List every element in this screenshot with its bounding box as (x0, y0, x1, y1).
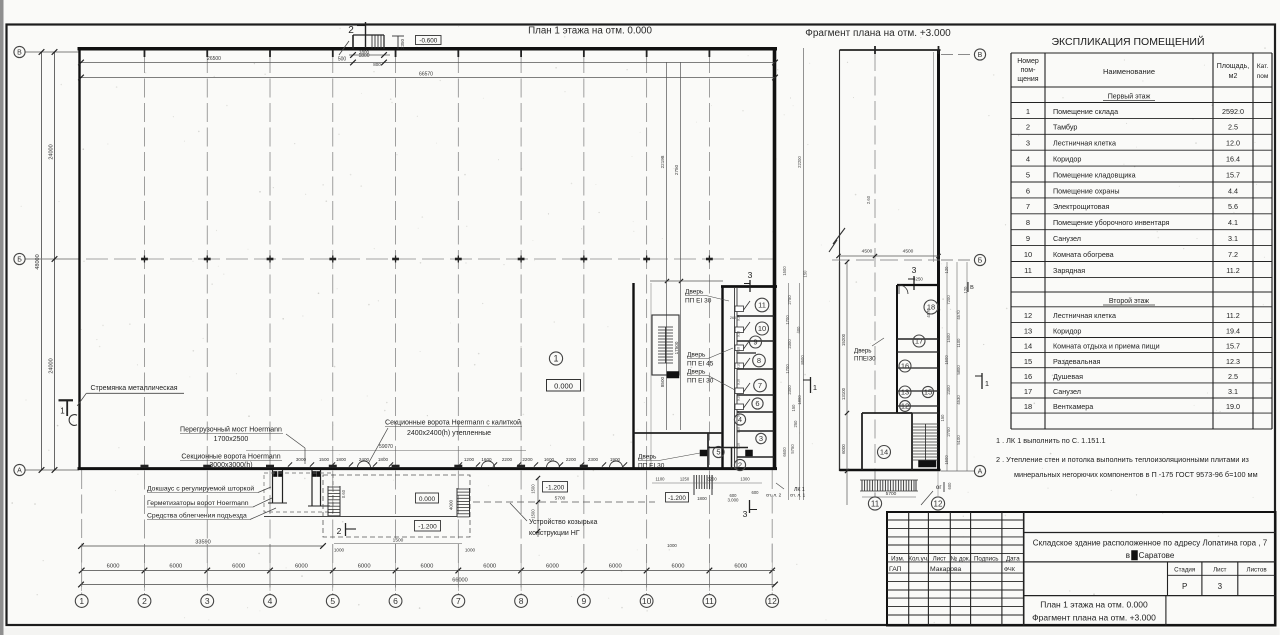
table header Номер (1017, 58, 1039, 83)
svg-text:7: 7 (758, 381, 762, 390)
titleblock line under stadia (1024, 595, 1276, 597)
dim line 66000 row (78, 578, 778, 588)
svg-text:9: 9 (1026, 234, 1030, 243)
svg-text:6000: 6000 (420, 564, 433, 570)
pit dashed outline (323, 475, 470, 537)
fragment bottom wall (840, 469, 941, 472)
svg-text:10: 10 (1024, 250, 1032, 259)
svg-text:4.4: 4.4 (1228, 186, 1238, 195)
fragment axis circle Б (974, 254, 985, 265)
svg-text:11: 11 (705, 596, 714, 606)
svg-text:9: 9 (753, 338, 757, 347)
svg-text:12.3: 12.3 (1226, 357, 1240, 366)
svg-text:Зарядная: Зарядная (1053, 266, 1085, 275)
svg-text:48000: 48000 (35, 254, 41, 269)
svg-text:5.6: 5.6 (1228, 202, 1238, 211)
svg-text:В: В (17, 50, 22, 57)
svg-text:120: 120 (963, 286, 968, 294)
svg-text:19.0: 19.0 (1226, 402, 1240, 411)
svg-text:13: 13 (901, 388, 909, 397)
svg-text:6000: 6000 (483, 564, 496, 570)
svg-text:2350: 2350 (400, 38, 405, 49)
svg-text:9: 9 (581, 596, 586, 606)
svg-text:150: 150 (791, 404, 796, 412)
room number bubble 11 (755, 298, 769, 312)
svg-text:11: 11 (871, 499, 880, 508)
svg-text:2300: 2300 (946, 385, 951, 395)
label dokshaus (147, 485, 271, 493)
fragment inner west wall (896, 285, 898, 413)
svg-text:-0.600: -0.600 (419, 38, 437, 45)
fragment door arc room18 (899, 285, 908, 294)
svg-text:910: 910 (737, 363, 741, 369)
svg-text:26500: 26500 (207, 56, 221, 62)
dim line 33590 (78, 540, 326, 549)
svg-text:3: 3 (205, 596, 210, 606)
rooms bottom dims row (655, 477, 750, 482)
svg-text:16: 16 (1024, 372, 1032, 381)
titleblock GAP row (889, 566, 1016, 573)
svg-text:В: В (978, 52, 983, 59)
column bubble 10 (640, 595, 653, 608)
fragment dim 5700 (862, 491, 916, 497)
fragment west line upper (839, 50, 841, 262)
svg-text:Лестничная клетка: Лестничная клетка (1053, 311, 1116, 320)
fragment flag В small (968, 282, 974, 292)
room divider y369 (737, 368, 774, 370)
svg-text:800: 800 (373, 62, 381, 67)
svg-text:2592.0: 2592.0 (1222, 107, 1244, 116)
fragment dims top (866, 195, 931, 317)
svg-text:Секционные ворота Hoermann: Секционные ворота Hoermann (181, 454, 280, 461)
svg-text:ГАП: ГАП (889, 566, 902, 573)
dock 2 shelter (308, 470, 330, 506)
fragment left dim line (845, 260, 849, 505)
svg-text:500: 500 (338, 57, 347, 63)
fragment divider y368 (897, 367, 939, 369)
label sredstva (147, 508, 276, 520)
room number bubble 5 (713, 446, 724, 457)
level box 0.000 warehouse (547, 380, 581, 392)
column bubble 12 (766, 595, 779, 608)
svg-text:2.5: 2.5 (1228, 372, 1238, 381)
top stair box (353, 35, 384, 49)
svg-text:12: 12 (767, 596, 777, 606)
svg-text:250: 250 (793, 420, 798, 428)
rooms top dim line (650, 279, 723, 283)
svg-text:Лист: Лист (1213, 567, 1227, 574)
svg-text:Раздевальная: Раздевальная (1053, 357, 1100, 366)
svg-text:пом: пом (1257, 73, 1269, 80)
rooms partition wall (632, 283, 634, 468)
svg-text:1200: 1200 (464, 457, 475, 462)
svg-text:910: 910 (737, 347, 741, 353)
svg-text:6: 6 (1026, 186, 1030, 195)
svg-text:5100: 5100 (956, 435, 961, 445)
svg-text:15: 15 (1024, 357, 1032, 366)
grid line column 2 (143, 54, 145, 594)
svg-text:1000: 1000 (465, 548, 476, 553)
svg-text:2400: 2400 (359, 457, 370, 462)
room number 1 bubble (549, 352, 562, 365)
grid line column 12 below building (771, 470, 773, 594)
svg-text:8: 8 (757, 356, 761, 365)
svg-text:Площадь,: Площадь, (1217, 63, 1249, 70)
table header Площадь (1217, 63, 1249, 80)
canopy level box -1.200 (543, 482, 568, 493)
room number bubble 2 (734, 459, 745, 470)
fragment door label (854, 338, 884, 363)
axis line А (25, 469, 79, 471)
svg-text:Душевая: Душевая (1053, 372, 1083, 381)
bottom wall opening dims (296, 457, 621, 462)
top dim line 2 (81, 77, 775, 79)
svg-text:15.7: 15.7 (1226, 342, 1240, 351)
titleblock line under top box (1024, 532, 1276, 534)
column ticks top wall (144, 50, 709, 57)
corridor west wall (721, 286, 723, 470)
svg-text:8500: 8500 (800, 355, 805, 365)
label bridge line1 (180, 426, 283, 434)
svg-text:4250: 4250 (913, 277, 923, 282)
fragment inner north wall (897, 284, 939, 286)
grid line column 9 (583, 54, 585, 594)
column bubble 6 (389, 595, 402, 608)
svg-text:1000: 1000 (334, 548, 345, 553)
column bubble 3 (201, 595, 214, 608)
fragment divider y339 (897, 338, 939, 340)
grid line column 5 (332, 54, 334, 594)
Б axis dashed line (30, 258, 776, 260)
svg-text:Тамбур: Тамбур (1053, 123, 1077, 132)
svg-text:Складское здание расположенное: Складское здание расположенное по адресу… (1033, 539, 1268, 548)
fragment axis В line (941, 54, 974, 56)
svg-text:3: 3 (759, 434, 763, 443)
svg-text:1100: 1100 (655, 477, 665, 482)
svg-text:Санузел: Санузел (1053, 387, 1081, 396)
svg-text:1000: 1000 (667, 543, 677, 548)
room number bubble 9 (750, 336, 762, 348)
table rows second floor (1024, 311, 1240, 411)
svg-text:18: 18 (1024, 402, 1032, 411)
svg-text:Фрагмент плана на отм. +3.000: Фрагмент плана на отм. +3.000 (1032, 613, 1156, 623)
scan blob artifact (1132, 551, 1138, 561)
svg-text:7200: 7200 (946, 295, 951, 305)
svg-text:1: 1 (79, 596, 84, 606)
svg-text:3000х3000(h): 3000х3000(h) (209, 462, 252, 469)
rooms bottom dim line (652, 482, 762, 484)
svg-text:Коридор: Коридор (1053, 155, 1081, 164)
svg-text:4570: 4570 (956, 310, 961, 320)
svg-text:ог: ог (936, 485, 942, 491)
svg-text:2.60: 2.60 (866, 195, 871, 204)
svg-text:6: 6 (755, 399, 759, 408)
svg-text:22198: 22198 (660, 155, 665, 168)
svg-text:2: 2 (1026, 123, 1030, 132)
pit level box 0.000 (416, 493, 439, 503)
svg-text:-1.200: -1.200 (668, 495, 686, 502)
room divider y395 (737, 394, 774, 396)
label door1 line1 (685, 289, 729, 302)
svg-text:22200: 22200 (797, 156, 802, 168)
svg-text:4: 4 (268, 596, 273, 606)
fragment divider y391 (897, 390, 939, 392)
svg-text:910: 910 (737, 427, 741, 433)
fragment room bubble 18 (924, 300, 938, 314)
titleblock left verticals (909, 512, 1024, 626)
column bubble 8 (515, 595, 528, 608)
fragment divider y352 (897, 351, 939, 353)
svg-text:1800: 1800 (378, 457, 389, 462)
fragment right dim verticals (947, 262, 967, 471)
svg-text:конструкции НГ: конструкции НГ (529, 530, 580, 537)
svg-text:6000: 6000 (295, 564, 308, 570)
grid line column 7 (457, 54, 459, 594)
svg-text:4000: 4000 (449, 499, 454, 510)
door black room2 w (700, 450, 707, 456)
label hermetizatory (147, 498, 272, 507)
section mark 1 right (803, 377, 817, 393)
fragment stair black rect (919, 461, 937, 468)
svg-text:1500: 1500 (531, 484, 536, 494)
svg-text:3.1: 3.1 (1228, 387, 1238, 396)
svg-text:Номер: Номер (1017, 58, 1039, 65)
fragment break zigzag (829, 228, 845, 252)
column bubble 5 (326, 595, 339, 608)
titleblock vertical right bottom (1165, 596, 1167, 626)
svg-text:1500: 1500 (393, 538, 404, 544)
table section Первый этаж (1103, 93, 1155, 101)
svg-text:15: 15 (924, 388, 932, 397)
svg-text:Дверь: Дверь (687, 352, 706, 359)
svg-text:12: 12 (934, 499, 943, 508)
svg-text:ЭКСПЛИКАЦИЯ ПОМЕЩЕНИЙ: ЭКСПЛИКАЦИЯ ПОМЕЩЕНИЙ (1051, 35, 1204, 48)
svg-text:2750: 2750 (787, 295, 792, 305)
grid line column 4 (269, 54, 271, 594)
svg-text:Устройство козырька: Устройство козырька (529, 518, 598, 526)
dim extension lines (82, 544, 772, 591)
svg-text:11: 11 (1024, 266, 1032, 275)
svg-text:1250: 1250 (680, 477, 690, 482)
fragment room bubble 12 (900, 401, 911, 412)
svg-text:3.000: 3.000 (728, 498, 740, 503)
svg-text:150: 150 (803, 270, 808, 278)
fragment top wall (840, 49, 941, 51)
titleblock line above stadia (1024, 561, 1276, 563)
svg-text:Наименование: Наименование (1103, 67, 1155, 76)
svg-text:5700: 5700 (886, 491, 897, 497)
grid line column 11 (708, 54, 710, 594)
svg-text:Второй этаж: Второй этаж (1109, 297, 1150, 305)
svg-text:пом-: пом- (1021, 67, 1036, 74)
fragment column bubble 12 (931, 497, 944, 510)
room divider y316 (737, 315, 774, 317)
room divider y457 (737, 456, 774, 458)
top stair treads (372, 36, 384, 49)
svg-text:6000: 6000 (609, 564, 622, 570)
svg-text:1300: 1300 (740, 477, 750, 482)
svg-text:2: 2 (142, 596, 147, 606)
svg-text:15.7: 15.7 (1226, 170, 1240, 179)
stadia header line (1168, 574, 1276, 576)
room divider y341 (737, 340, 774, 342)
svg-text:5: 5 (1026, 170, 1030, 179)
svg-text:2400х2400(h) утепленные: 2400х2400(h) утепленные (407, 430, 491, 437)
tiny dims 910 chain (730, 315, 741, 449)
table header Кат (1257, 63, 1269, 80)
svg-text:2300: 2300 (787, 385, 792, 395)
level box -0.600 (416, 36, 442, 45)
svg-text:Лестничная клетка: Лестничная клетка (1053, 139, 1116, 148)
svg-text:Помещение склада: Помещение склада (1053, 107, 1118, 116)
svg-text:План 1 этажа на отм. 0.000: План 1 этажа на отм. 0.000 (1040, 600, 1148, 610)
label door2 line1 (687, 348, 733, 359)
grid line column 8 (520, 54, 522, 594)
svg-text:1600: 1600 (544, 457, 555, 462)
fragment room bubble 16 (899, 360, 911, 372)
svg-text:6600: 6600 (782, 447, 787, 457)
svg-text:2200: 2200 (566, 457, 577, 462)
fragment west wall lower (839, 262, 841, 471)
svg-text:3.1: 3.1 (1228, 234, 1238, 243)
svg-text:120: 120 (944, 266, 949, 274)
column bubble 7 (452, 595, 465, 608)
svg-text:Дверь: Дверь (687, 369, 706, 376)
svg-text:Дверь: Дверь (854, 348, 872, 355)
svg-text:Лист: Лист (933, 556, 947, 563)
svg-text:1700: 1700 (785, 364, 790, 374)
svg-text:ПП ЕI 30: ПП ЕI 30 (638, 463, 665, 470)
svg-text:910: 910 (737, 443, 741, 449)
svg-text:4500: 4500 (903, 249, 914, 255)
ladder symbol (69, 415, 77, 426)
svg-text:Б: Б (17, 257, 22, 264)
svg-text:1500: 1500 (782, 266, 787, 276)
svg-text:1 . ЛК 1 выполнить по С. 1.15: 1 . ЛК 1 выполнить по С. 1.151.1 (996, 436, 1106, 445)
fragment Б axis dashes (832, 259, 940, 261)
titleblock left horizontals (887, 520, 1024, 615)
pit dim 11500 (334, 538, 462, 544)
rooms partition inner line (650, 283, 652, 468)
svg-text:8: 8 (519, 596, 524, 606)
label door3 line1 (687, 369, 735, 391)
interior dim line 17500 (674, 62, 681, 430)
svg-text:6000: 6000 (232, 564, 245, 570)
svg-text:0.000: 0.000 (554, 381, 573, 390)
svg-text:3: 3 (1026, 139, 1030, 148)
column bubble 2 (138, 595, 151, 608)
axis circle А (14, 464, 25, 475)
room number bubble 8 (753, 354, 766, 367)
svg-text:11.2: 11.2 (1226, 266, 1239, 275)
svg-text:11.2: 11.2 (1226, 311, 1239, 320)
svg-text:ПП ЕI 45: ПП ЕI 45 (687, 361, 714, 368)
svg-text:7: 7 (1026, 202, 1030, 211)
svg-text:17: 17 (915, 337, 923, 346)
svg-text:66000: 66000 (452, 578, 468, 584)
stadia headers (1174, 567, 1267, 574)
svg-text:1: 1 (813, 383, 817, 392)
titleblock col headers (891, 556, 1020, 563)
fragment axis Б line (941, 259, 974, 261)
svg-text:2700: 2700 (946, 427, 951, 437)
svg-text:6000: 6000 (358, 564, 371, 570)
svg-text:1800: 1800 (697, 496, 707, 501)
dock dashed surround (264, 473, 333, 512)
interior dim line 8500 (660, 62, 667, 430)
svg-text:сп. л. 2: сп. л. 2 (766, 493, 782, 498)
svg-text:5800: 5800 (956, 365, 961, 375)
pit level box -1.200 (415, 521, 441, 532)
svg-text:19.4: 19.4 (1226, 327, 1240, 336)
label gate2 line1 (385, 419, 522, 427)
svg-text:Кат.: Кат. (1257, 63, 1269, 70)
stadia values (1182, 582, 1223, 591)
svg-text:Коридор: Коридор (1053, 327, 1081, 336)
dock 1 shelter (268, 470, 287, 503)
top dim ticks (78, 60, 778, 81)
svg-text:Подпись: Подпись (974, 556, 999, 563)
pit stair west (328, 486, 340, 517)
svg-text:13: 13 (1024, 327, 1032, 336)
svg-text:10: 10 (642, 596, 652, 606)
fragment east wall (934, 50, 939, 471)
stair level arrow (392, 36, 404, 49)
svg-text:4530: 4530 (956, 395, 961, 405)
svg-text:6000: 6000 (841, 444, 846, 454)
column bubble 9 (577, 595, 590, 608)
svg-text:6000: 6000 (546, 564, 559, 570)
fragment room bubble 13 (899, 386, 911, 398)
svg-text:1700: 1700 (785, 315, 790, 325)
svg-text:66570: 66570 (419, 72, 433, 78)
right dim verticals (789, 48, 804, 500)
axis line Б (25, 258, 79, 260)
svg-text:8: 8 (1026, 218, 1030, 227)
stairwell door black (667, 372, 679, 379)
svg-text:1600: 1600 (481, 457, 492, 462)
warehouse bottom wall (78, 467, 778, 470)
label door4 line1 (638, 453, 700, 461)
svg-text:3: 3 (748, 270, 753, 280)
room number bubble 3 (756, 433, 766, 443)
svg-text:5: 5 (330, 596, 335, 606)
svg-text:6: 6 (393, 596, 398, 606)
svg-text:4: 4 (1026, 155, 1030, 164)
svg-text:2200: 2200 (502, 457, 513, 462)
stadia verticals (1168, 562, 1238, 596)
room5 north wall (634, 432, 723, 434)
fragment column bubble 11 (868, 497, 881, 510)
svg-text:910: 910 (737, 379, 741, 385)
svg-text:12: 12 (901, 402, 909, 411)
titleblock outer (887, 512, 1276, 626)
svg-text:3: 3 (743, 509, 748, 519)
svg-text:Средства облегчения подъезда: Средства облегчения подъезда (147, 512, 247, 520)
svg-text:ФЧК: ФЧК (1004, 567, 1016, 573)
svg-text:2: 2 (337, 526, 342, 536)
grid line column 1 below building (81, 470, 83, 594)
table section Второй этаж (1103, 297, 1155, 305)
svg-text:сп. л. 1: сп. л. 1 (790, 493, 806, 498)
section mark 2 bottom (337, 523, 356, 536)
fragment left dim texts (841, 333, 846, 454)
label LK1 (766, 483, 806, 498)
fragment room bubble 17 (913, 335, 925, 347)
svg-text:1900: 1900 (610, 457, 621, 462)
svg-text:0.60: 0.60 (341, 489, 346, 498)
svg-text:1500: 1500 (944, 355, 949, 365)
